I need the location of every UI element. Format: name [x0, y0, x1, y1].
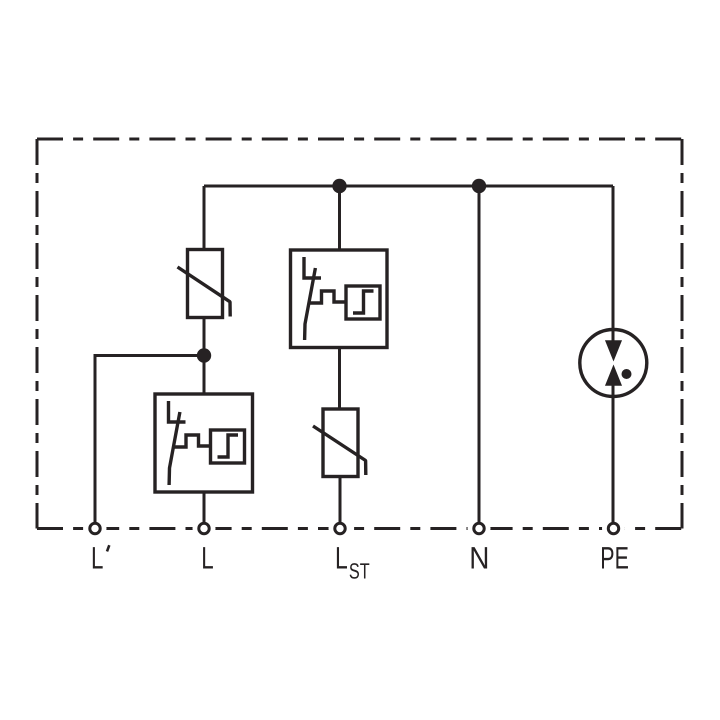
- terminal LST: [335, 523, 345, 533]
- gas discharge tube (circle, right): [580, 330, 647, 397]
- enclosure dashed border left: [36, 139, 39, 529]
- junction dot on bus at LST branch: [332, 179, 346, 193]
- gas discharge tube lower arrow: [606, 366, 622, 386]
- terminal gap masks: [84, 517, 626, 540]
- wire varistor 1 bottom to node A and box U2: [203, 318, 206, 395]
- triggered spark gap U1 (upper middle box): [291, 250, 388, 348]
- terminal PE: [608, 523, 618, 533]
- label PE: [600, 541, 629, 576]
- terminal N: [474, 523, 484, 533]
- enclosure dashed border bottom: [37, 527, 682, 530]
- junction dot on bus at N branch: [472, 179, 486, 193]
- wire node A to L' branch: [95, 356, 204, 523]
- triggered spark gap U2 (lower left box): [155, 394, 253, 492]
- varistor 2 (middle): [313, 409, 366, 477]
- wire top bus: [204, 185, 613, 188]
- svg-text:L: L: [201, 540, 213, 575]
- svg-text:L: L: [91, 541, 103, 576]
- enclosure dashed border top: [37, 138, 682, 141]
- gas discharge tube upper arrow: [606, 341, 622, 361]
- wire varistor 2 bottom to terminal LST: [339, 477, 342, 523]
- wire box U2 bottom to terminal L: [203, 492, 206, 522]
- svg-text:LST: LST: [335, 540, 370, 583]
- label L': [91, 541, 103, 576]
- label N: [469, 541, 489, 576]
- label L' apostrophe: [107, 545, 109, 551]
- wire top bus to spark gap box U1: [338, 186, 341, 250]
- gas discharge tube gas dot: [622, 369, 632, 379]
- wire top bus to varistor 1: [203, 186, 206, 250]
- label LST: [335, 540, 370, 583]
- svg-text:PE: PE: [600, 541, 629, 576]
- enclosure dashed border right: [681, 139, 684, 529]
- label L: [201, 540, 213, 575]
- wire N branch: [478, 186, 481, 522]
- terminal L': [90, 523, 100, 533]
- varistor 1 (upper left): [178, 250, 231, 318]
- svg-text:N: N: [469, 541, 489, 576]
- wire gas discharge tube bottom to terminal PE: [612, 386, 615, 523]
- terminal L: [199, 523, 209, 533]
- wire PE branch upper: [612, 186, 615, 342]
- junction node A dot: [197, 348, 211, 362]
- wire box U1 bottom to varistor 2: [338, 348, 341, 410]
